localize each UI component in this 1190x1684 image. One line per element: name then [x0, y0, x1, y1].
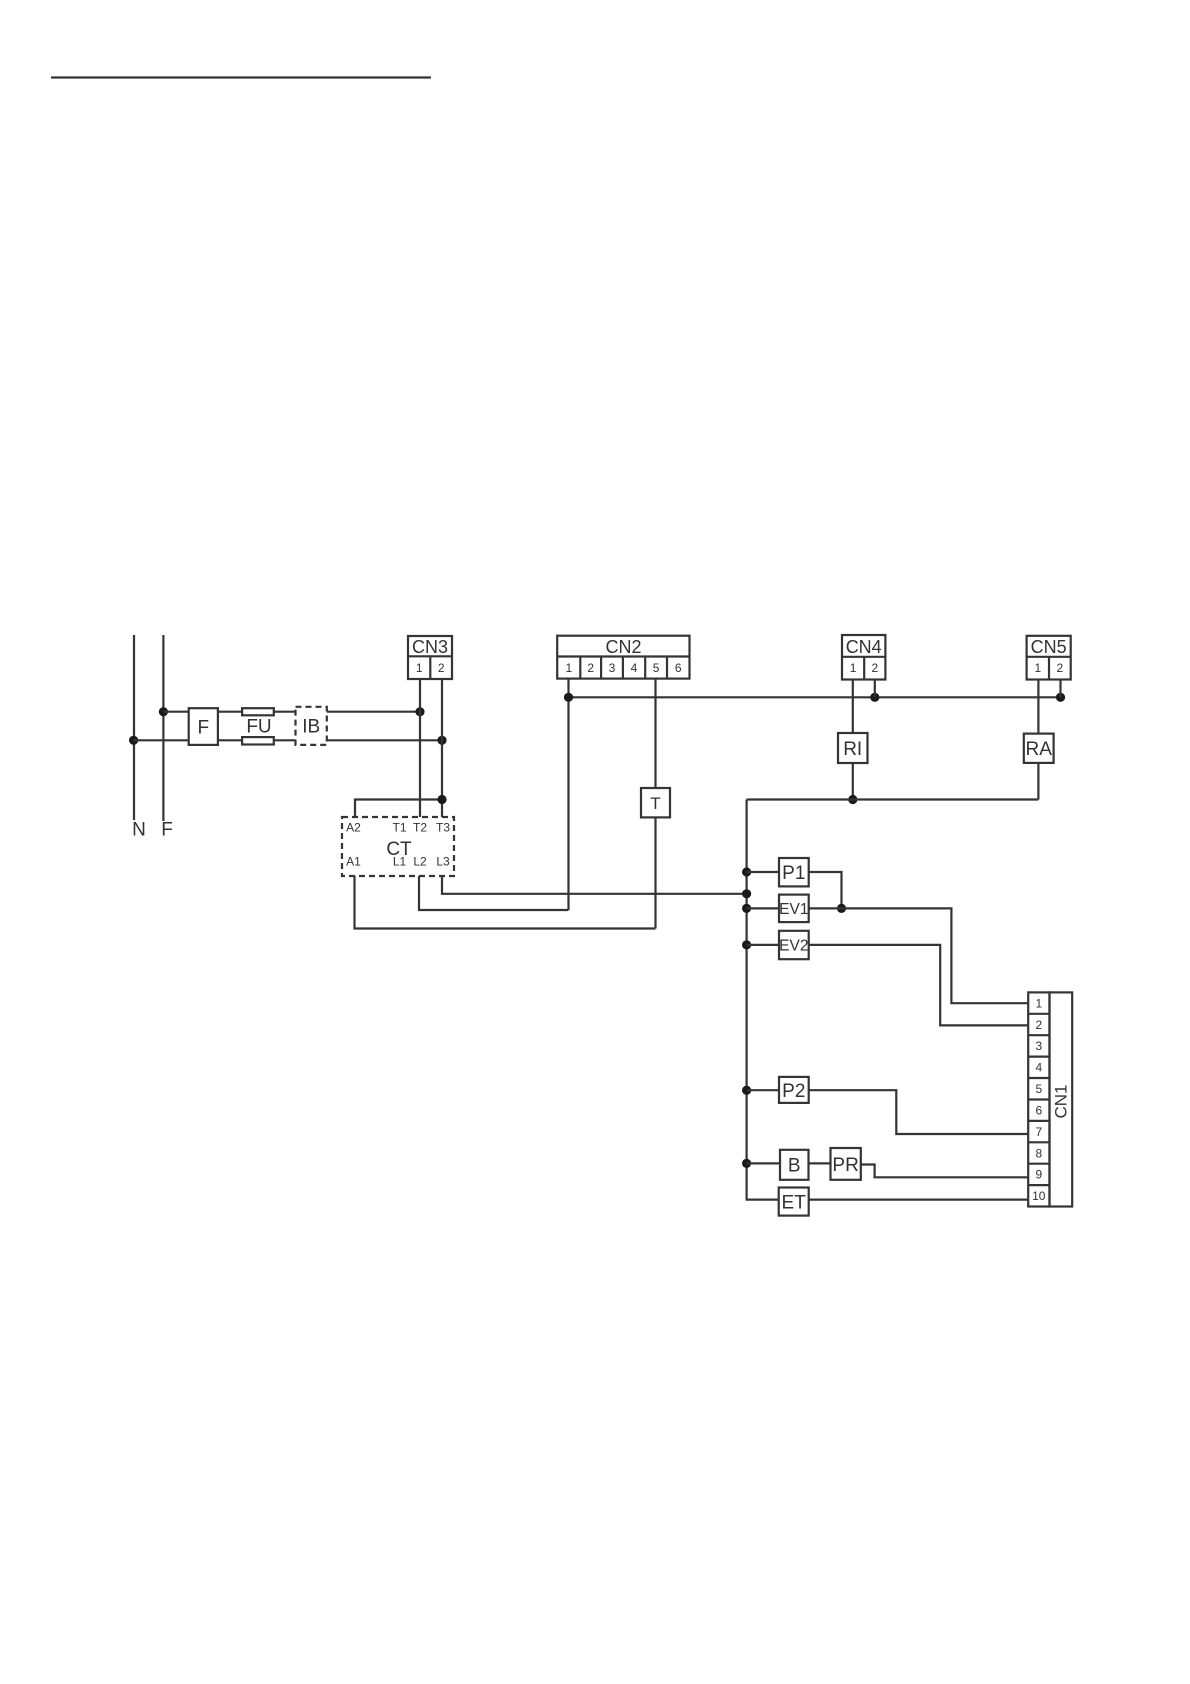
wire bus vertical: [747, 800, 779, 1200]
svg-text:A1: A1: [346, 855, 361, 869]
svg-text:7: 7: [1035, 1125, 1042, 1139]
wire top F to fuse: [218, 711, 242, 713]
wire top feed to switch F: [163, 711, 188, 713]
pressure switch P2: [779, 1077, 809, 1103]
svg-text:EV1: EV1: [779, 901, 808, 918]
wire EV2 to CN1 pin 2: [809, 945, 1028, 1026]
relay PR: [831, 1148, 861, 1180]
relay RI: [838, 733, 868, 763]
wire top IB to CN3 pin 1: [327, 711, 420, 713]
svg-text:F: F: [161, 820, 173, 841]
junction top feed / CN3 pin 1: [415, 707, 424, 716]
svg-text:T1: T1: [392, 821, 406, 835]
junction CN2 pin 1 / main net: [564, 693, 573, 702]
svg-text:T: T: [650, 794, 660, 813]
svg-text:A2: A2: [346, 821, 361, 835]
svg-text:L2: L2: [413, 855, 427, 869]
junction bus / L3 wire: [742, 889, 751, 898]
wire RI down to RI-RA net: [852, 763, 854, 800]
svg-text:F: F: [197, 717, 209, 738]
wire T down to A1 branch: [654, 817, 656, 928]
wire RA down: [1037, 763, 1039, 800]
svg-text:1: 1: [1035, 996, 1042, 1010]
junction bottom feed / CN3 pin 2: [437, 736, 446, 745]
junction T3 wire / A2 branch: [437, 795, 446, 804]
wire CN3 pin 1 to CT T2: [419, 679, 421, 817]
junction bus / P1: [742, 867, 751, 876]
wire CN3 pin 2 to CT T3: [441, 679, 443, 817]
svg-text:P2: P2: [782, 1081, 805, 1102]
wire CN4 pin 2 to main net: [874, 680, 876, 698]
switch F: [189, 708, 218, 745]
connector CN2: [557, 636, 689, 679]
svg-text:RA: RA: [1025, 739, 1052, 760]
svg-text:10: 10: [1032, 1189, 1046, 1203]
svg-text:IB: IB: [302, 716, 320, 737]
junction bus / B: [742, 1159, 751, 1168]
svg-text:ET: ET: [782, 1193, 807, 1214]
svg-text:3: 3: [609, 661, 616, 675]
junction bus / P2: [742, 1086, 751, 1095]
svg-text:1: 1: [850, 661, 857, 675]
junction RI / RI-RA net: [848, 795, 857, 804]
svg-text:N: N: [132, 820, 146, 841]
wire ET to CN1 pin 10: [809, 1198, 1028, 1200]
thermostat ET: [779, 1188, 809, 1216]
connector CN4: [842, 635, 885, 680]
svg-text:1: 1: [565, 661, 572, 675]
relay RA: [1024, 734, 1054, 763]
svg-text:CN4: CN4: [846, 637, 882, 657]
svg-text:8: 8: [1035, 1146, 1042, 1160]
wire CT L2 to CN2 pin 1: [419, 876, 569, 910]
wire bus to P1: [747, 871, 779, 873]
wire CN4 pin 1 to RI: [852, 680, 854, 734]
svg-text:RI: RI: [843, 739, 862, 760]
svg-text:L1: L1: [393, 855, 407, 869]
connector CN5: [1027, 636, 1071, 680]
breaker IB: [296, 707, 327, 745]
wire CN5 pin 2 to main net: [1059, 680, 1061, 698]
svg-text:4: 4: [1035, 1061, 1042, 1075]
junction bus / EV2: [742, 940, 751, 949]
wire branch to CT A2: [355, 800, 442, 818]
wire P1 to EV1 net: [809, 872, 842, 908]
svg-text:5: 5: [1035, 1082, 1042, 1096]
svg-text:1: 1: [1034, 661, 1041, 675]
wire CN2 pin 5 to T: [654, 679, 656, 788]
svg-text:1: 1: [416, 661, 423, 675]
wire bottom F to fuse: [218, 739, 242, 741]
svg-text:FU: FU: [246, 716, 271, 737]
wire bus to P2: [747, 1089, 779, 1091]
svg-text:6: 6: [1035, 1104, 1042, 1118]
valve EV2: [779, 931, 809, 959]
svg-text:L3: L3: [436, 855, 450, 869]
wire bottom feed to switch F: [134, 739, 189, 741]
svg-text:4: 4: [631, 661, 638, 675]
svg-text:T2: T2: [413, 821, 427, 835]
valve EV1: [779, 895, 809, 923]
svg-text:2: 2: [871, 661, 878, 675]
transformer CT: [342, 817, 454, 876]
wire PR to CN1 pin 9: [861, 1165, 1028, 1178]
heading underline: [51, 76, 431, 78]
wire bus to B: [747, 1162, 780, 1164]
junction bus / EV1: [742, 904, 751, 913]
wire RI-RA horizontal net: [747, 798, 1039, 800]
wire top fuse to IB: [274, 711, 296, 713]
mains line N: [133, 635, 135, 820]
svg-text:EV2: EV2: [779, 938, 808, 955]
junction CN5 pin 2 / main net: [1056, 693, 1065, 702]
svg-text:P1: P1: [782, 863, 805, 884]
svg-text:2: 2: [438, 661, 445, 675]
svg-text:5: 5: [653, 661, 660, 675]
wire P2 to CN1 pin 7: [809, 1090, 1028, 1134]
pump B: [780, 1150, 809, 1180]
svg-text:CN1: CN1: [1052, 1084, 1071, 1118]
wire bus to EV2: [747, 944, 779, 946]
junction F line / top feed: [159, 707, 168, 716]
junction CN4 pin 2 / main net: [870, 693, 879, 702]
svg-text:B: B: [788, 1156, 801, 1177]
svg-text:6: 6: [675, 661, 682, 675]
mains line F: [162, 635, 164, 821]
wire bottom fuse to IB: [274, 739, 296, 741]
svg-text:T3: T3: [436, 821, 450, 835]
junction N line / bottom feed: [129, 736, 138, 745]
svg-text:9: 9: [1035, 1168, 1042, 1182]
junction P1 wire / EV1 net: [837, 904, 846, 913]
wire CN5 pin 1 to RA: [1037, 680, 1039, 734]
svg-text:PR: PR: [832, 1155, 858, 1176]
wire CN2 pin 1 down: [567, 679, 569, 910]
wire bottom IB to CN3 pin 2: [327, 739, 442, 741]
connector CN3: [408, 636, 452, 679]
wire CT A1 to T branch: [355, 876, 656, 929]
fuse FU top element: [242, 708, 274, 715]
sensor T: [641, 788, 670, 817]
pressure switch P1: [779, 858, 809, 886]
wire bus to EV1: [747, 907, 779, 909]
fuse FU bottom element: [242, 737, 274, 744]
svg-text:2: 2: [1057, 661, 1064, 675]
wire B to PR: [809, 1162, 831, 1164]
svg-text:CN2: CN2: [605, 637, 641, 657]
svg-text:CN3: CN3: [412, 637, 448, 657]
svg-text:2: 2: [587, 661, 594, 675]
svg-text:3: 3: [1035, 1039, 1042, 1053]
wire EV1 to CN1 pin 1: [809, 908, 1028, 1003]
main net wire: [569, 696, 1061, 698]
wire CT L3 to bus: [442, 876, 747, 894]
connector CN1: [1028, 992, 1072, 1206]
svg-text:CN5: CN5: [1031, 637, 1067, 657]
svg-text:2: 2: [1035, 1018, 1042, 1032]
